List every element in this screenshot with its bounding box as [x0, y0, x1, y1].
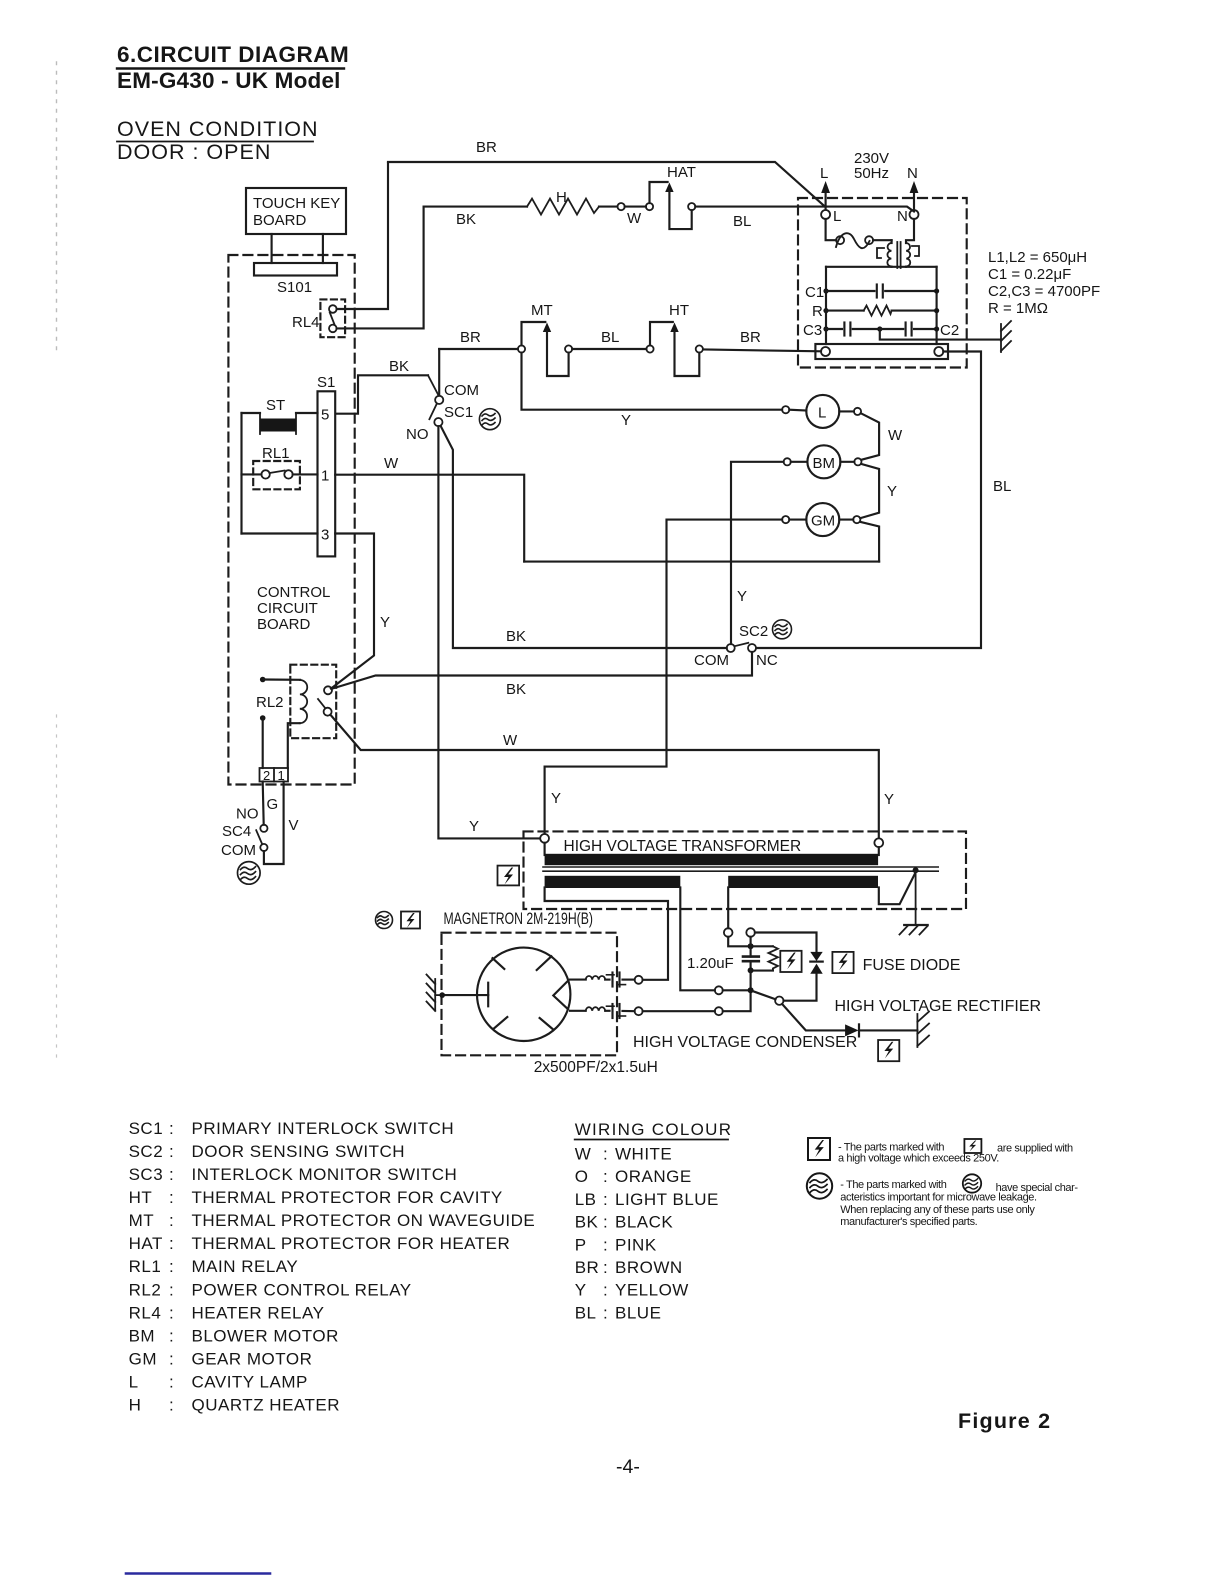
svg-text:1: 1	[321, 468, 329, 485]
ground magnetron	[427, 975, 446, 1012]
node W junction	[618, 203, 625, 210]
svg-text:ST: ST	[266, 397, 285, 414]
wire junction to HAT	[625, 206, 646, 208]
transformer filament winding	[545, 876, 681, 888]
svg-text:COM: COM	[444, 382, 479, 399]
svg-text:MT: MT	[531, 302, 553, 319]
wire GM bypass down to bottom W run	[860, 522, 879, 562]
svg-text:BOARD: BOARD	[253, 212, 307, 229]
wire filament top to transformer	[545, 887, 668, 979]
svg-text::: :	[603, 1235, 608, 1254]
scan margin artifact	[56, 62, 58, 350]
high voltage mark rectifier	[878, 1040, 899, 1061]
svg-text:OVEN CONDITION: OVEN CONDITION	[117, 117, 319, 141]
wire SC1 NO down to HV transformer left	[438, 426, 540, 838]
svg-text:LIGHT BLUE: LIGHT BLUE	[615, 1190, 719, 1209]
svg-text:BR: BR	[575, 1258, 600, 1277]
svg-text:-4-: -4-	[616, 1456, 640, 1478]
line filter transformer L1 L2	[877, 219, 919, 268]
wire BL from HAT to N	[695, 207, 914, 212]
svg-text:L: L	[820, 165, 828, 182]
svg-text:are supplied with: are supplied with	[997, 1143, 1073, 1155]
svg-text:RL2: RL2	[129, 1280, 162, 1299]
wire Y from S1 pin3 to RL2	[331, 534, 374, 689]
thermal protector MT	[518, 302, 572, 376]
svg-text:BL: BL	[601, 329, 619, 346]
high voltage mark fuse left	[780, 951, 801, 972]
wire BL between MT and HT	[572, 348, 646, 350]
svg-text:Y: Y	[884, 791, 894, 808]
svg-text:P: P	[575, 1235, 587, 1254]
terminal L	[820, 165, 841, 225]
wire V from SC4 COM to pin1	[264, 782, 284, 865]
svg-text::: :	[169, 1326, 174, 1345]
svg-text::: :	[603, 1145, 608, 1164]
svg-text:50Hz: 50Hz	[854, 165, 889, 182]
svg-text:SC4: SC4	[222, 823, 251, 840]
svg-text:NO: NO	[236, 806, 259, 823]
wire G	[263, 782, 264, 825]
thermal protector HAT	[646, 164, 696, 229]
condenser terminal left	[724, 928, 733, 937]
svg-text::: :	[169, 1142, 174, 1161]
svg-text:BK: BK	[506, 681, 526, 698]
ground transformer secondary	[900, 872, 928, 935]
svg-text:BR: BR	[460, 329, 481, 346]
wire BR from MT row into filter strip	[704, 350, 821, 352]
wire TKB lead left	[271, 234, 273, 263]
microwave mark SC4	[238, 862, 261, 885]
touch key board U-TKB	[246, 188, 346, 234]
svg-text:V: V	[289, 817, 299, 834]
svg-text:BK: BK	[575, 1213, 599, 1232]
svg-text:2: 2	[263, 768, 270, 783]
svg-text:BK: BK	[456, 211, 476, 228]
terminal N	[897, 165, 919, 225]
svg-text::: :	[169, 1234, 174, 1253]
svg-text:RL2: RL2	[256, 694, 284, 711]
svg-text:NC: NC	[756, 652, 778, 669]
fuse diode	[755, 933, 823, 1001]
svg-text:W: W	[503, 732, 518, 749]
wire Y bypass BM to GM	[860, 464, 879, 518]
svg-text:RL1: RL1	[262, 445, 290, 462]
node rectifier junction	[775, 997, 783, 1005]
ground rectifier	[917, 1012, 929, 1048]
wire W bottom run of motor loop	[524, 561, 879, 563]
svg-text::: :	[169, 1280, 174, 1299]
svg-text:L1,L2 = 650μH: L1,L2 = 650μH	[988, 249, 1087, 266]
svg-text:HT: HT	[669, 302, 689, 319]
svg-text:BM: BM	[129, 1326, 156, 1345]
svg-text:SC1: SC1	[444, 404, 473, 421]
svg-text:MAIN RELAY: MAIN RELAY	[192, 1257, 299, 1276]
svg-text:L: L	[833, 208, 841, 225]
transformer secondary winding line	[543, 866, 938, 868]
diode high voltage rectifier	[845, 1024, 917, 1036]
wire filament winding right to condenser	[727, 887, 729, 928]
wire junction diagonal	[753, 991, 775, 999]
transformer primary winding	[545, 854, 879, 865]
wire RL4 top to BR riser	[337, 163, 388, 309]
svg-text:PRIMARY INTERLOCK SWITCH: PRIMARY INTERLOCK SWITCH	[192, 1119, 455, 1138]
svg-text:BK: BK	[389, 358, 409, 375]
blower motor BM	[784, 445, 862, 478]
svg-text:RL4: RL4	[292, 314, 320, 331]
wire W from RL2 contact to transformer right	[330, 715, 878, 839]
microwave mark SC1	[479, 409, 500, 430]
filter output terminal strip	[815, 344, 948, 359]
svg-text:TOUCH KEY: TOUCH KEY	[253, 195, 340, 212]
svg-text:Y: Y	[575, 1281, 587, 1300]
wire W from S1 pin1	[335, 475, 524, 562]
svg-text:SC3: SC3	[129, 1165, 164, 1184]
wire left rail	[825, 267, 827, 344]
svg-text:BOARD: BOARD	[257, 616, 311, 633]
magnetron tube	[444, 948, 571, 1041]
svg-text::: :	[169, 1257, 174, 1276]
wire Y GM left down and to transformer left	[545, 520, 783, 834]
resistor bleeder	[754, 946, 778, 970]
svg-text:H: H	[129, 1396, 142, 1415]
svg-text:BL: BL	[993, 478, 1011, 495]
switch SC2	[694, 623, 778, 669]
magnetron filament feedthrough bottom	[570, 1004, 643, 1018]
svg-text:HEATER RELAY: HEATER RELAY	[192, 1303, 325, 1322]
wire left rail of board	[240, 413, 242, 534]
microwave mark SC2	[773, 620, 792, 639]
wire right rail	[936, 267, 938, 344]
wire Y from MT down to lamp row	[522, 353, 783, 410]
wire to HV junction	[723, 989, 748, 991]
wire RL4 bottom to BK riser	[337, 208, 424, 329]
svg-text:a high voltage which exceeds 2: a high voltage which exceeds 250V.	[838, 1153, 999, 1165]
svg-text:CAVITY LAMP: CAVITY LAMP	[192, 1373, 308, 1392]
wire BR top run	[388, 162, 825, 207]
svg-text:6.CIRCUIT DIAGRAM: 6.CIRCUIT DIAGRAM	[117, 42, 349, 67]
svg-text:When replacing any of these pa: When replacing any of these parts use on…	[840, 1204, 1035, 1216]
wire BK run	[424, 206, 527, 208]
svg-text:BL: BL	[733, 213, 751, 230]
svg-text:MT: MT	[129, 1211, 155, 1230]
svg-text:YELLOW: YELLOW	[615, 1281, 689, 1300]
svg-text:CONTROL: CONTROL	[257, 584, 330, 601]
thermal protector HT	[646, 302, 703, 376]
svg-text:5: 5	[321, 407, 329, 424]
high voltage mark magnetron	[401, 912, 420, 929]
wire TKB lead right	[322, 234, 324, 263]
legend component list	[129, 1119, 536, 1415]
switch SC4	[221, 806, 268, 860]
svg-text:FUSE DIODE: FUSE DIODE	[863, 957, 961, 974]
svg-text::: :	[169, 1165, 174, 1184]
svg-text:H: H	[556, 189, 567, 206]
svg-text::: :	[603, 1281, 608, 1300]
node connector bottom	[715, 1007, 723, 1015]
wire secondary right end to ground tap	[879, 872, 916, 904]
svg-text:THERMAL PROTECTOR ON WAVEGUIDE: THERMAL PROTECTOR ON WAVEGUIDE	[192, 1211, 536, 1230]
svg-text:BR: BR	[476, 139, 497, 156]
wire H to HAT	[599, 206, 617, 208]
svg-text:Y: Y	[737, 588, 747, 605]
svg-text:C2: C2	[940, 322, 959, 339]
svg-text:S1: S1	[317, 374, 335, 391]
svg-text:BROWN: BROWN	[615, 1258, 683, 1277]
svg-text:NO: NO	[406, 426, 429, 443]
svg-text:BLUE: BLUE	[615, 1303, 661, 1322]
svg-text:SC2: SC2	[739, 623, 768, 640]
svg-text:QUARTZ HEATER: QUARTZ HEATER	[192, 1396, 341, 1415]
resistor R	[812, 303, 939, 320]
svg-text:C3: C3	[803, 322, 822, 339]
svg-text::: :	[169, 1350, 174, 1369]
connector 2-1	[260, 768, 289, 783]
relay RL4	[292, 299, 345, 337]
component values note	[988, 249, 1100, 317]
thermistor ST	[242, 397, 318, 434]
condenser terminal right	[746, 928, 755, 937]
subtitle: OVEN CONDITION / DOOR : OPEN	[117, 117, 319, 164]
capacitors C3 C2	[803, 322, 959, 339]
svg-text:DOOR : OPEN: DOOR : OPEN	[117, 140, 271, 164]
svg-text::: :	[603, 1303, 608, 1322]
gear motor GM	[782, 503, 860, 536]
note microwave leakage	[807, 1173, 1079, 1228]
svg-text:N: N	[907, 165, 918, 182]
svg-text:GEAR MOTOR: GEAR MOTOR	[192, 1350, 313, 1369]
svg-text:MAGNETRON 2M-219H(B): MAGNETRON 2M-219H(B)	[444, 910, 594, 928]
svg-text:GM: GM	[129, 1350, 157, 1369]
svg-text::: :	[603, 1167, 608, 1186]
high voltage transformer dashed box	[524, 831, 967, 909]
svg-text:W: W	[575, 1145, 592, 1164]
svg-text:Y: Y	[380, 614, 390, 631]
svg-text:POWER CONTROL RELAY: POWER CONTROL RELAY	[192, 1280, 412, 1299]
svg-text:GM: GM	[811, 513, 835, 530]
svg-text:INTERLOCK MONITOR SWITCH: INTERLOCK MONITOR SWITCH	[192, 1165, 458, 1184]
magnetron dashed box	[442, 933, 618, 1056]
wire Y BM left to SC2 COM	[731, 462, 784, 644]
microwave mark magnetron	[376, 912, 393, 929]
resistor H	[527, 189, 599, 215]
wire BL output of filter down to SC2 NC	[757, 352, 981, 649]
noise filter dashed box	[798, 198, 967, 368]
connector S101	[254, 263, 337, 296]
ground chassis right	[1001, 321, 1011, 352]
wire filament bottom run	[643, 1010, 715, 1012]
lamp L	[782, 395, 861, 428]
transformer primary terminals	[540, 834, 549, 843]
svg-text:HT: HT	[129, 1188, 153, 1207]
svg-text:SC2: SC2	[129, 1142, 164, 1161]
control circuit board dashed outline	[228, 255, 354, 785]
node HV junction	[748, 987, 754, 993]
svg-text:HAT: HAT	[129, 1234, 163, 1253]
svg-text:S101: S101	[277, 279, 312, 296]
relay RL1 contact	[242, 445, 318, 489]
svg-text:W: W	[888, 427, 903, 444]
magnetron filament feedthrough top	[570, 973, 643, 987]
svg-text:HIGH VOLTAGE CONDENSER: HIGH VOLTAGE CONDENSER	[633, 1034, 857, 1051]
switch SC1	[336, 358, 479, 443]
svg-text:Figure 2: Figure 2	[958, 1409, 1051, 1433]
svg-text:THERMAL PROTECTOR FOR CAVITY: THERMAL PROTECTOR FOR CAVITY	[192, 1188, 503, 1207]
svg-text:Y: Y	[551, 790, 561, 807]
svg-text::: :	[169, 1211, 174, 1230]
svg-text:L: L	[818, 405, 826, 422]
svg-text:EM-G430 - UK Model: EM-G430 - UK Model	[117, 68, 341, 93]
svg-text:BR: BR	[740, 329, 761, 346]
capacitor C1	[805, 284, 939, 301]
svg-text:C2,C3 = 4700PF: C2,C3 = 4700PF	[988, 283, 1100, 300]
wire W bypass L to BM	[861, 413, 879, 460]
svg-text::: :	[169, 1188, 174, 1207]
svg-text:G: G	[267, 796, 279, 813]
relay RL2	[256, 665, 336, 768]
svg-text::: :	[169, 1373, 174, 1392]
svg-text:WIRING COLOUR: WIRING COLOUR	[575, 1120, 733, 1139]
wire C3 tap to chassis	[880, 329, 1001, 340]
svg-text:W: W	[384, 455, 399, 472]
svg-text:CIRCUIT: CIRCUIT	[257, 600, 318, 617]
svg-text:BLOWER MOTOR: BLOWER MOTOR	[192, 1326, 339, 1345]
svg-text::: :	[603, 1190, 608, 1209]
svg-text:1.20uF: 1.20uF	[687, 955, 734, 972]
node connector mid	[715, 986, 723, 994]
svg-text:BL: BL	[575, 1303, 597, 1322]
high voltage mark at transformer	[498, 866, 520, 886]
svg-text:HIGH VOLTAGE TRANSFORMER: HIGH VOLTAGE TRANSFORMER	[564, 838, 802, 855]
svg-text:THERMAL PROTECTOR FOR HEATER: THERMAL PROTECTOR FOR HEATER	[192, 1234, 511, 1253]
svg-text:PINK: PINK	[615, 1235, 657, 1254]
wire BR into MT from SC1 COM riser	[439, 348, 518, 350]
svg-text:L: L	[129, 1373, 139, 1392]
svg-text:COM: COM	[694, 652, 729, 669]
svg-text:acteristics important for micr: acteristics important for microwave leak…	[840, 1192, 1037, 1204]
svg-text:R = 1MΩ: R = 1MΩ	[988, 300, 1048, 317]
wire to condenser junction	[723, 993, 751, 1011]
title: 6.CIRCUIT DIAGRAM	[117, 42, 349, 93]
legend wiring colour	[575, 1120, 733, 1322]
svg-text::: :	[603, 1213, 608, 1232]
svg-text:N: N	[897, 208, 908, 225]
svg-text:LB: LB	[575, 1190, 597, 1209]
svg-text::: :	[169, 1119, 174, 1138]
wire HV tap from filament winding	[680, 887, 715, 990]
svg-text:ORANGE: ORANGE	[615, 1167, 692, 1186]
svg-text:O: O	[575, 1167, 589, 1186]
svg-text:RL1: RL1	[129, 1257, 162, 1276]
svg-text:WHITE: WHITE	[615, 1145, 672, 1164]
svg-text:SC1: SC1	[129, 1119, 164, 1138]
svg-text:- The parts marked with: - The parts marked with	[840, 1179, 946, 1191]
high voltage mark fuse right	[832, 952, 853, 973]
wire SC1 NO branch to SC2 COM	[441, 426, 727, 648]
svg-text:manufacturer's specified parts: manufacturer's specified parts.	[840, 1216, 977, 1228]
svg-text::: :	[169, 1303, 174, 1322]
footer blue mark	[126, 1572, 270, 1575]
svg-text:3: 3	[321, 527, 329, 544]
svg-text:R: R	[812, 303, 823, 320]
wire BK return from SC2 NC to RL2	[332, 652, 753, 689]
svg-text:BM: BM	[813, 455, 836, 472]
fuse F	[826, 219, 892, 248]
capacitor 1.20uF	[687, 937, 759, 988]
wire bus below transformer	[826, 266, 937, 268]
svg-text:Y: Y	[469, 818, 479, 835]
svg-text:Y: Y	[887, 483, 897, 500]
svg-text:HAT: HAT	[667, 164, 696, 181]
svg-text:C1: C1	[805, 284, 824, 301]
svg-text:W: W	[627, 210, 642, 227]
svg-text:DOOR SENSING SWITCH: DOOR SENSING SWITCH	[192, 1142, 406, 1161]
note high voltage	[808, 1138, 1073, 1165]
svg-text::: :	[603, 1258, 608, 1277]
wire to rectifier	[782, 1004, 845, 1030]
svg-text:HIGH VOLTAGE RECTIFIER: HIGH VOLTAGE RECTIFIER	[835, 998, 1042, 1015]
svg-text:BLACK: BLACK	[615, 1213, 673, 1232]
svg-text:RL4: RL4	[129, 1303, 162, 1322]
connector S1	[317, 374, 335, 556]
svg-text:COM: COM	[221, 842, 256, 859]
svg-text:Y: Y	[621, 412, 631, 429]
svg-text:BK: BK	[506, 628, 526, 645]
svg-text:2x500PF/2x1.5uH: 2x500PF/2x1.5uH	[534, 1059, 658, 1076]
wire to S1 pin3	[242, 532, 318, 534]
svg-text:C1 = 0.22μF: C1 = 0.22μF	[988, 266, 1071, 283]
svg-text::: :	[169, 1396, 174, 1415]
